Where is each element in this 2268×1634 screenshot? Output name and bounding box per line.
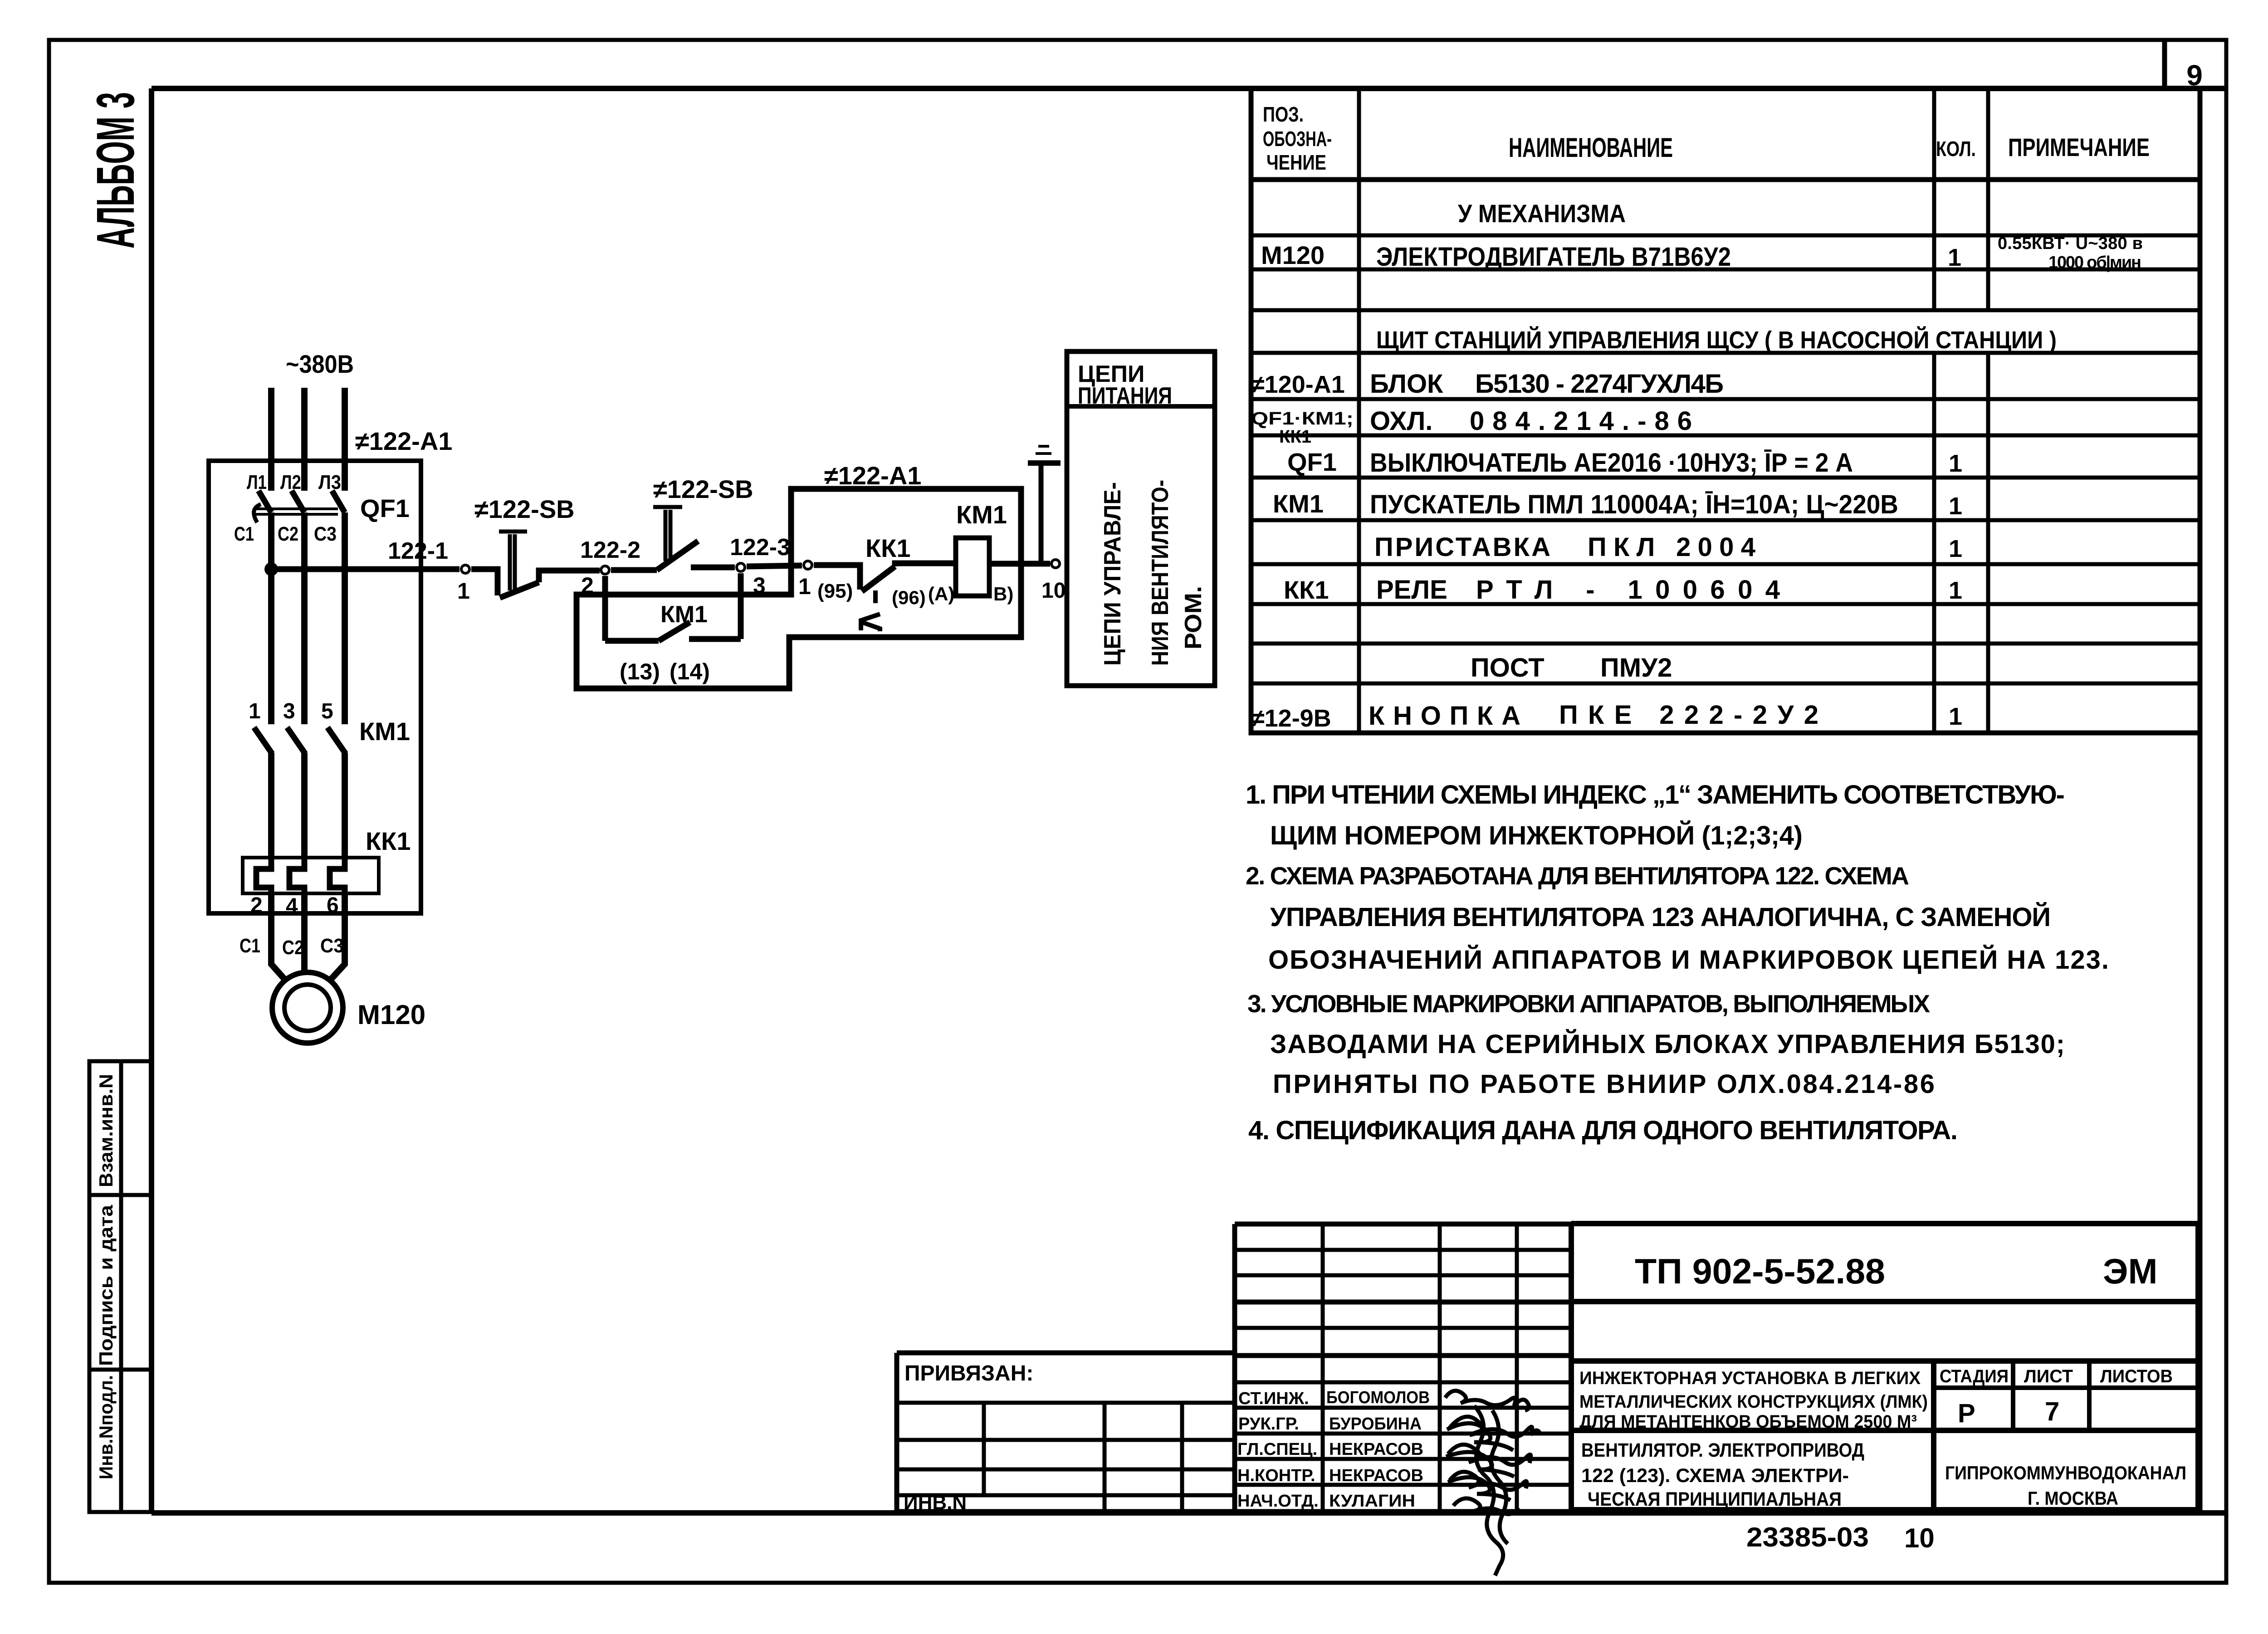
KM1 main contact pole 3 (327, 727, 346, 754)
description / stadia divider (1931, 1361, 1936, 1510)
svg-text:ПМУ2: ПМУ2 (1600, 653, 1672, 683)
svg-text:КОЛ.: КОЛ. (1936, 137, 1976, 161)
svg-text:C1: C1 (234, 523, 254, 545)
breaker QF1 pole 1 blade (259, 491, 271, 512)
svg-text:(96): (96) (892, 587, 926, 608)
node 122-2 terminal circle (601, 566, 609, 574)
description cells divider (1571, 1428, 2198, 1433)
wire coil to node10 (989, 561, 1050, 567)
svg-text:1: 1 (1949, 577, 1962, 604)
svg-text:У МЕХАНИЗМА: У МЕХАНИЗМА (1458, 199, 1626, 228)
svg-text:КК1: КК1 (1279, 427, 1311, 447)
junction dot on L1 (264, 562, 278, 576)
svg-text:ДЛЯ МЕТАНТЕНКОВ ОБЪЕМОМ 2500 М: ДЛЯ МЕТАНТЕНКОВ ОБЪЕМОМ 2500 М³ (1579, 1412, 1917, 1432)
svg-text:C2: C2 (282, 937, 304, 959)
svg-text:НЕКРАСОВ: НЕКРАСОВ (1329, 1440, 1423, 1459)
svg-text:1: 1 (457, 578, 470, 604)
svg-text:≠122-SB: ≠122-SB (474, 495, 575, 523)
svg-text:C1: C1 (240, 935, 260, 957)
svg-text:ЦЕПИ УПРАВЛЕ-: ЦЕПИ УПРАВЛЕ- (1100, 482, 1126, 666)
svg-text:1: 1 (1949, 535, 1962, 562)
svg-text:(13): (13) (620, 659, 660, 684)
svg-text:1: 1 (1949, 703, 1962, 730)
svg-text:Г. МОСКВА: Г. МОСКВА (2028, 1488, 2118, 1509)
aux contact KM1 (605, 622, 741, 641)
svg-text:СТАДИЯ: СТАДИЯ (1940, 1366, 2009, 1386)
svg-text:БУРОБИНА: БУРОБИНА (1329, 1415, 1422, 1434)
svg-text:10: 10 (1904, 1523, 1935, 1553)
svg-text:ПКЕ 222-2У2: ПКЕ 222-2У2 (1559, 700, 1818, 730)
phase wire L1 top (268, 388, 274, 491)
thermal relay KK1 box (243, 858, 379, 893)
svg-text:ЛИСТ: ЛИСТ (2024, 1366, 2073, 1386)
svg-text:C2: C2 (278, 523, 298, 545)
KM1 main contact pole 2 (287, 727, 305, 754)
svg-text:122-1: 122-1 (388, 538, 448, 564)
svg-text:1: 1 (1948, 244, 1961, 271)
left stamp column (89, 1061, 151, 1512)
svg-text:ПРИВЯЗАН:: ПРИВЯЗАН: (904, 1361, 1033, 1385)
svg-text:Л2: Л2 (280, 471, 301, 493)
svg-text:ЩИТ СТАНЦИЙ УПРАВЛЕНИЯ ЩСУ (: ЩИТ СТАНЦИЙ УПРАВЛЕНИЯ ЩСУ ( В НАСОСНОЙ … (1376, 326, 2057, 354)
svg-text:КК1: КК1 (865, 534, 911, 562)
cabinet box ЩСУ (209, 461, 421, 913)
svg-text:КК1: КК1 (366, 827, 411, 855)
svg-text:МЕТАЛЛИЧЕСКИХ КОНСТРУКЦИЯХ (ЛМ: МЕТАЛЛИЧЕСКИХ КОНСТРУКЦИЯХ (ЛМК) (1579, 1392, 1928, 1412)
phase wire L3 mid (342, 512, 348, 724)
svg-text:5: 5 (321, 699, 333, 723)
svg-text:C3: C3 (314, 523, 337, 545)
svg-text:ЭЛЕКТРОДВИГАТЕЛЬ В71В6У2: ЭЛЕКТРОДВИГАТЕЛЬ В71В6У2 (1376, 242, 1731, 272)
svg-text:ИНЖЕКТОРНАЯ УСТАНОВКА В ЛЕГКИХ: ИНЖЕКТОРНАЯ УСТАНОВКА В ЛЕГКИХ (1579, 1368, 1921, 1388)
svg-text:Р: Р (1958, 1399, 1975, 1428)
relay KK1 NC contact (814, 563, 955, 591)
motor feeder C2 (301, 893, 308, 975)
phase L3 lower (342, 753, 348, 859)
svg-text:122-2: 122-2 (580, 537, 640, 563)
svg-text:НИЯ ВЕНТИЛЯТО-: НИЯ ВЕНТИЛЯТО- (1147, 480, 1173, 666)
holding branch left drop (602, 576, 608, 641)
svg-text:7: 7 (2045, 1397, 2059, 1426)
svg-text:ЧЕСКАЯ ПРИНЦИПИАЛЬНАЯ: ЧЕСКАЯ ПРИНЦИПИАЛЬНАЯ (1588, 1488, 1842, 1510)
phase wire L2 top (301, 388, 308, 491)
svg-text:1000 об|мин: 1000 об|мин (2048, 253, 2141, 272)
motor feeder C1 (271, 893, 286, 980)
breaker QF1 latch hook (254, 504, 261, 522)
svg-text:ПОСТ: ПОСТ (1471, 653, 1545, 683)
svg-text:122 (123). СХЕМА ЭЛЕКТРИ-: 122 (123). СХЕМА ЭЛЕКТРИ- (1581, 1465, 1849, 1487)
phase wire L2 mid (301, 512, 308, 724)
phase L1 lower (268, 753, 274, 859)
Привязан block grid (897, 1353, 1235, 1512)
svg-text:≠122-A1: ≠122-A1 (824, 461, 921, 490)
breaker QF1 pole 2 blade (292, 491, 304, 512)
ground stem (1039, 465, 1044, 561)
sheet inner frame (152, 88, 2226, 1513)
svg-text:2: 2 (250, 893, 263, 917)
svg-text:(95): (95) (817, 580, 853, 602)
stadia column lines (2013, 1361, 2089, 1430)
page number box 9 (2162, 40, 2167, 91)
wire node3 to node95 (747, 566, 802, 566)
svg-text:3: 3 (283, 699, 295, 723)
svg-text:НАИМЕНОВАНИЕ: НАИМЕНОВАНИЕ (1509, 132, 1673, 163)
signature squiggles (1445, 1391, 1540, 1575)
table right edge extension down (2198, 733, 2203, 1513)
svg-text:ЛИСТОВ: ЛИСТОВ (2100, 1366, 2173, 1386)
relay KK1 trip symbol (861, 590, 880, 631)
table column line prim (1986, 88, 1990, 733)
svg-text:РЕЛЕ: РЕЛЕ (1376, 575, 1447, 605)
svg-text:1. ПРИ ЧТЕНИИ СХЕМЫ ИНДЕК: 1. ПРИ ЧТЕНИИ СХЕМЫ ИНДЕКС „1“ ЗАМЕНИТЬ … (1246, 780, 2065, 810)
svg-text:НАЧ.ОТД.: НАЧ.ОТД. (1237, 1492, 1319, 1511)
svg-text:КУЛАГИН: КУЛАГИН (1329, 1492, 1415, 1511)
title block bottom (1571, 1507, 2198, 1512)
svg-text:6: 6 (327, 893, 339, 917)
svg-text:РОМ.: РОМ. (1180, 586, 1207, 649)
svg-text:КМ1: КМ1 (660, 601, 708, 628)
svg-text:C3: C3 (320, 935, 344, 957)
svg-text:КМ1: КМ1 (1273, 489, 1324, 518)
svg-text:ОБОЗНА-: ОБОЗНА- (1263, 127, 1332, 151)
svg-text:≠122-SB: ≠122-SB (653, 475, 753, 503)
svg-text:23385-03: 23385-03 (1746, 1522, 1869, 1552)
svg-text:084.214.-86: 084.214.-86 (1470, 406, 1692, 436)
supply circuits box (1067, 351, 1215, 686)
svg-text:Б5130 - 2274ГУХЛ4Б: Б5130 - 2274ГУХЛ4Б (1475, 369, 1724, 399)
table row lines (1251, 177, 2200, 182)
svg-text:1: 1 (798, 574, 811, 599)
svg-text:ГИПРОКОММУНВОДОКАНАЛ: ГИПРОКОММУНВОДОКАНАЛ (1945, 1462, 2186, 1483)
svg-text:НЕКРАСОВ: НЕКРАСОВ (1329, 1466, 1423, 1485)
svg-text:ЧЕНИЕ: ЧЕНИЕ (1266, 151, 1326, 174)
svg-text:≠122-A1: ≠122-A1 (355, 427, 452, 455)
ТП box bottom (1571, 1299, 2198, 1304)
svg-text:УПРАВЛЕНИЯ ВЕНТИЛЯТОРА 1: УПРАВЛЕНИЯ ВЕНТИЛЯТОРА 123 АНАЛОГИЧНА, С… (1270, 902, 2051, 932)
phase L2 lower (301, 753, 308, 859)
block A1 outline (577, 489, 1021, 688)
contactor coil KM1 (956, 538, 989, 596)
signature table grid (1235, 1224, 1571, 1512)
svg-text:QF1: QF1 (1287, 448, 1337, 476)
svg-text:СТ.ИНЖ.: СТ.ИНЖ. (1238, 1389, 1309, 1408)
svg-text:1: 1 (1949, 450, 1962, 477)
svg-text:Взам.инв.N: Взам.инв.N (95, 1074, 117, 1187)
svg-text:М120: М120 (1261, 241, 1325, 269)
holding branch right drop (738, 573, 744, 639)
empty band bottom (1571, 1358, 2198, 1364)
heater element phase 2 (289, 858, 304, 894)
svg-text:ИНВ.N: ИНВ.N (904, 1492, 967, 1514)
svg-text:Инв.Nподл.: Инв.Nподл. (95, 1375, 117, 1479)
svg-text:ОБОЗНАЧЕНИЙ АППАРАТОВ И: ОБОЗНАЧЕНИЙ АППАРАТОВ И МАРКИРОВОК ЦЕПЕЙ… (1268, 945, 2109, 975)
svg-text:(14): (14) (670, 659, 710, 684)
svg-text:Л3: Л3 (318, 471, 341, 493)
breaker QF1 pole 3 blade (332, 491, 345, 512)
svg-text:QF1·КМ1;: QF1·КМ1; (1251, 409, 1354, 429)
svg-text:ПРИМЕЧАНИЕ: ПРИМЕЧАНИЕ (2008, 133, 2150, 161)
ground bar (1028, 460, 1061, 466)
table outer box (1251, 88, 2200, 733)
svg-text:4. СПЕЦИФИКАЦИЯ ДАНА ДЛЯ: 4. СПЕЦИФИКАЦИЯ ДАНА ДЛЯ ОДНОГО ВЕНТИЛЯТ… (1248, 1116, 1958, 1145)
svg-text:Л1: Л1 (247, 471, 267, 493)
svg-text:2. СХЕМА РАЗРАБОТАНА ДЛЯ: 2. СХЕМА РАЗРАБОТАНА ДЛЯ ВЕНТИЛЯТОРА 122… (1246, 862, 1909, 890)
svg-text:1: 1 (1949, 493, 1962, 520)
svg-text:ВЕНТИЛЯТОР. ЭЛЕКТРОПРИВОД: ВЕНТИЛЯТОР. ЭЛЕКТРОПРИВОД (1581, 1439, 1864, 1461)
motor feeder C3 (330, 893, 345, 980)
svg-text:(A): (A) (928, 583, 954, 605)
table column line kol (1932, 88, 1936, 733)
svg-text:1: 1 (249, 699, 261, 723)
ground equal marks (1036, 446, 1051, 454)
svg-text:ПУСКАТЕЛЬ ПМЛ 110004А; ĪН=10: ПУСКАТЕЛЬ ПМЛ 110004А; ĪН=10А; Ц~220В (1370, 490, 1898, 519)
svg-text:БЛОК: БЛОК (1370, 369, 1443, 399)
start button SB contact (611, 541, 735, 570)
svg-text:~380B: ~380B (286, 350, 354, 378)
svg-text:КК1: КК1 (1284, 576, 1329, 604)
svg-text:4: 4 (286, 894, 298, 918)
svg-text:QF1: QF1 (360, 494, 410, 522)
svg-text:3. УСЛОВНЫЕ МАРКИРОВКИ: 3. УСЛОВНЫЕ МАРКИРОВКИ АППАРАТОВ, ВЫПОЛН… (1247, 990, 1930, 1018)
svg-text:≠120-А1: ≠120-А1 (1251, 371, 1345, 398)
svg-text:ПРИСТАВКА: ПРИСТАВКА (1374, 532, 1550, 562)
stop button SB actuator (499, 532, 527, 590)
svg-text:РУК.ГР.: РУК.ГР. (1238, 1415, 1299, 1434)
svg-text:ОХЛ.: ОХЛ. (1370, 406, 1432, 436)
title block big outline (1571, 1224, 2198, 1510)
node 95 terminal circle (804, 561, 812, 569)
svg-text:М120: М120 (357, 1000, 425, 1030)
svg-text:0.55КВТ· U~380 в: 0.55КВТ· U~380 в (1998, 234, 2143, 253)
svg-text:ГЛ.СПЕЦ.: ГЛ.СПЕЦ. (1237, 1440, 1317, 1459)
svg-text:ЭМ: ЭМ (2103, 1251, 2157, 1291)
node 1 terminal circle (461, 565, 469, 573)
table column line pos/name (1357, 88, 1361, 733)
control wire 122-1 (271, 566, 459, 572)
svg-text:ЩИМ НОМЕРОМ ИНЖЕКТОРНОЙ (: ЩИМ НОМЕРОМ ИНЖЕКТОРНОЙ (1;2;3;4) (1270, 821, 1803, 850)
svg-text:B): B) (993, 583, 1013, 605)
svg-text:ЗАВОДАМИ НА СЕРИЙНЫХ БЛ: ЗАВОДАМИ НА СЕРИЙНЫХ БЛОКАХ УПРАВЛЕНИЯ Б… (1270, 1029, 2065, 1059)
heater element phase 3 (330, 858, 345, 894)
svg-text:Н.КОНТР.: Н.КОНТР. (1237, 1466, 1315, 1485)
breaker QF1 trip bar (254, 509, 338, 514)
svg-text:ПИТАНИЯ: ПИТАНИЯ (1078, 383, 1172, 409)
svg-text:ПРИНЯТЫ ПО РАБОТЕ ВНИ: ПРИНЯТЫ ПО РАБОТЕ ВНИИР ОЛХ.084.214-86 (1273, 1069, 1935, 1099)
phase wire L1 mid (268, 512, 274, 724)
svg-text:ТП 902-5-52.88: ТП 902-5-52.88 (1635, 1251, 1885, 1291)
motor M120 inner circle (284, 985, 331, 1031)
svg-text:КМ1: КМ1 (359, 717, 410, 746)
stop button SB contact (471, 569, 600, 598)
node 10 terminal circle (1051, 560, 1060, 568)
svg-text:Подпись и дата: Подпись и дата (95, 1205, 117, 1366)
svg-text:122-3: 122-3 (730, 534, 790, 561)
stadia header underline (1934, 1385, 2198, 1390)
KM1 main contact pole 1 (254, 727, 272, 754)
heater element phase 1 (256, 858, 271, 894)
phase wire L3 top (342, 388, 348, 491)
svg-text:10: 10 (1041, 579, 1066, 603)
svg-text:АЛЬБОМ 3: АЛЬБОМ 3 (86, 92, 146, 249)
svg-text:БОГОМОЛОВ: БОГОМОЛОВ (1326, 1388, 1430, 1407)
motor M120 outer circle (272, 972, 343, 1043)
svg-text:ПОЗ.: ПОЗ. (1263, 102, 1304, 126)
svg-text:ВЫКЛЮЧАТЕЛЬ АЕ2016 ·10НУ3; Ī: ВЫКЛЮЧАТЕЛЬ АЕ2016 ·10НУ3; ĪР = 2 А (1370, 448, 1853, 478)
svg-text:≠12-9В: ≠12-9В (1251, 705, 1331, 732)
svg-text:КМ1: КМ1 (956, 500, 1007, 529)
start button SB actuator (653, 507, 682, 561)
node 122-3 terminal circle (737, 563, 745, 571)
